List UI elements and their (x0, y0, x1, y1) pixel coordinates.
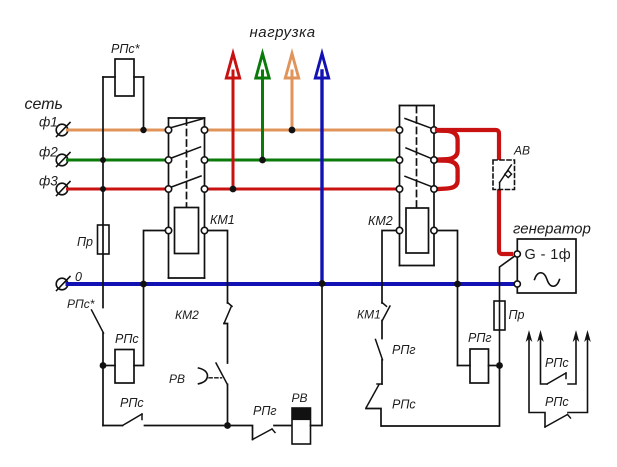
load arrow green (256, 54, 269, 161)
svg-text:РПс: РПс (120, 396, 144, 410)
svg-text:РПг: РПг (468, 331, 492, 345)
wire ф1 orange (net, two segments around KM1 contacts) (68, 129, 397, 132)
contactor coil KM1 (175, 208, 199, 254)
contactor KM1 blade ф3 (172, 176, 202, 187)
svg-text:КМ2: КМ2 (368, 214, 393, 228)
coil KM2 terminal circles (396, 227, 437, 233)
svg-text:КМ1: КМ1 (357, 308, 381, 322)
node dot РПс coil left (100, 362, 107, 369)
svg-text:ф1: ф1 (39, 115, 58, 130)
contactor KM1 contact circles (165, 127, 207, 192)
node dot neutral x143.5 (140, 281, 147, 288)
plug arrows block: inner bracket with РПс contact (541, 339, 577, 384)
wire generator red: KM2 curls (436, 131, 458, 190)
wire РПс coil leads (103, 365, 115, 367)
contactor KM2 blade ф2 (406, 148, 432, 159)
contactor KM1 blade ф2 (172, 147, 201, 158)
wire KM1 coil right to control chain (208, 231, 228, 304)
terminal ф1 (56, 123, 70, 137)
АВ diamond (505, 171, 512, 178)
contactor KM1 mechanical dashed link (186, 119, 188, 208)
АВ blade and stub (500, 165, 512, 183)
contactor KM2 blade ф1 (405, 119, 432, 129)
node dot ф3 x103 (100, 186, 106, 192)
contactor KM1 blade ф1 (172, 119, 203, 128)
contactor coil KM2 (406, 208, 429, 253)
arrowheads outer (526, 330, 533, 342)
node dot ф2 x103 (100, 157, 106, 163)
node dot bottom x227.5 (224, 422, 231, 429)
svg-text:сеть: сеть (25, 96, 63, 113)
node dot neutral x457.5 (454, 281, 461, 288)
svg-text:РПс*: РПс* (67, 297, 95, 311)
svg-text:нагрузка: нагрузка (250, 24, 316, 41)
wire generator red: top run to AB (437, 130, 499, 161)
relay coil РПг (470, 349, 489, 383)
contactor KM2 mechanical dashed link (416, 107, 418, 209)
svg-text:РПс: РПс (115, 332, 139, 346)
relay coil РПс (115, 350, 134, 384)
wire ф3 red (68, 188, 397, 191)
svg-text:Пр: Пр (77, 235, 93, 249)
terminal ф2 (56, 153, 70, 167)
svg-text:РПс: РПс (545, 395, 569, 409)
contactor KM1 frame (169, 118, 205, 278)
svg-text:генератор: генератор (513, 221, 591, 238)
wire KM1 coil left to neutral (144, 231, 166, 285)
circuit breaker АВ dashed box (493, 160, 515, 190)
wire РПс* left to ф2 (102, 77, 104, 160)
svg-text:РПг: РПг (253, 404, 277, 418)
node dot red arrow to ф3 (230, 186, 237, 193)
wire KM2 coil left to control chain x382 (382, 231, 396, 304)
load arrow blue (315, 54, 328, 284)
coil KM1 terminal circles (165, 227, 207, 233)
generator sine symbol (535, 273, 560, 287)
svg-text:Пр: Пр (509, 308, 525, 322)
svg-text:РВ: РВ (292, 391, 308, 405)
contactor KM2 contact circles (396, 127, 437, 192)
fuse Пр (left) (102, 160, 104, 308)
wire KM2 coil right to neutral (437, 231, 457, 366)
wire generator phase to fuse Пр (500, 256, 515, 365)
terminal 0 (56, 277, 70, 291)
wire 0 neutral blue (68, 282, 515, 286)
svg-text:КМ2: КМ2 (175, 308, 199, 322)
svg-text:КМ1: КМ1 (210, 213, 235, 227)
node dot ф1/РПс* (140, 127, 146, 133)
svg-text:РПс*: РПс* (111, 42, 141, 56)
node dot blue arrow to neutral (319, 280, 326, 287)
svg-text:РПг: РПг (392, 343, 416, 357)
contactor KM2 blade ф3 (405, 176, 432, 187)
relay coil РПс* (top) (103, 59, 144, 96)
plug arrows block: outer bracket with РПс contact (529, 339, 588, 427)
node dot orange arrow to ф1 (289, 127, 296, 134)
wire ф2 green (68, 159, 397, 162)
svg-text:РВ: РВ (169, 372, 185, 386)
svg-text:G - 1ф: G - 1ф (525, 247, 572, 263)
svg-text:РПс: РПс (545, 356, 569, 370)
svg-text:ф2: ф2 (39, 145, 58, 160)
wire fuse chain down to bottom run (382, 366, 500, 427)
node dot РПг/fuse x499.5 (496, 362, 503, 369)
svg-text:АВ: АВ (513, 144, 530, 158)
generator terminal bottom (514, 281, 520, 287)
svg-text:ф3: ф3 (39, 174, 58, 189)
generator G box (517, 239, 576, 293)
generator terminal top (514, 251, 520, 257)
svg-text:0: 0 (75, 270, 82, 284)
svg-text:РПс: РПс (392, 398, 416, 412)
wire РВ coil right to neutral (311, 284, 323, 426)
fuse Пр (right) (494, 301, 505, 330)
wire РПг coil left (458, 365, 471, 367)
wire РПг coil right (489, 365, 500, 367)
wire РПс* right to ф1 (143, 77, 145, 130)
load arrow orange (285, 54, 298, 131)
node dot green arrow to ф2 (259, 157, 266, 164)
contactor KM2 frame (400, 106, 435, 266)
wire generator red: AB to generator terminal (499, 189, 511, 254)
terminal ф3 (56, 182, 70, 196)
arrowheads inner (537, 330, 544, 342)
load arrow red (226, 54, 239, 190)
